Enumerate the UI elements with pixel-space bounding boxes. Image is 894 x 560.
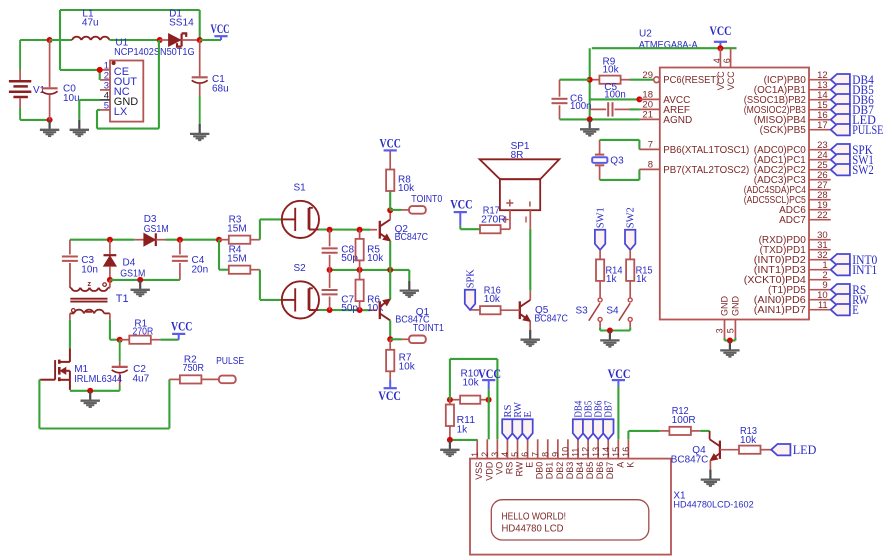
- junction: [357, 307, 363, 313]
- svg-text:SW2: SW2: [852, 163, 874, 177]
- svg-text:U2: U2: [639, 29, 652, 40]
- wire gate loop from R2: [39, 379, 169, 428]
- ground: [400, 281, 419, 297]
- wire R3/R4 split: [219, 240, 229, 270]
- ground: [600, 331, 619, 347]
- svg-text:100R: 100R: [672, 415, 696, 426]
- junction: [447, 397, 453, 403]
- capacitor C7 50p: [322, 270, 359, 314]
- svg-text:Q3: Q3: [610, 155, 624, 166]
- capacitor C6 100n: [552, 80, 592, 120]
- LCD X1 HD44780LCD-1602: [470, 459, 754, 555]
- wire VCC to R9/AVCC: [590, 48, 640, 119]
- svg-text:7: 7: [530, 452, 540, 457]
- flag DB4 (LCD): [573, 401, 585, 440]
- U2 pin 22 ADC7: [779, 210, 831, 226]
- svg-text:ATMEGA8A-A: ATMEGA8A-A: [639, 40, 698, 51]
- IC U1 NCP1402SN50T1G: [110, 37, 195, 121]
- resistor R16 10k: [480, 286, 520, 315]
- label PULSE (testpoint): [201, 356, 244, 383]
- capacitor C3: [62, 240, 98, 288]
- svg-text:SW2: SW2: [626, 207, 637, 228]
- junction: [387, 267, 393, 273]
- svg-text:68u: 68u: [212, 84, 229, 95]
- junction: [486, 397, 492, 403]
- flag E (LCD): [522, 411, 534, 439]
- flag LED (R13): [771, 443, 816, 457]
- svg-text:E: E: [523, 411, 534, 418]
- U2 pin 4 VCC: [712, 48, 726, 90]
- svg-text:VO: VO: [494, 462, 504, 475]
- svg-text:T1: T1: [116, 293, 129, 305]
- resistor R5 10k: [356, 230, 385, 270]
- resistor R17 270R: [480, 206, 506, 234]
- X1 pin 13 DB6: [591, 439, 605, 479]
- svg-text:V1: V1: [33, 85, 46, 96]
- svg-text:13: 13: [591, 447, 601, 457]
- svg-text:5: 5: [510, 452, 520, 457]
- wire K to R12: [628, 431, 660, 439]
- resistor R9 10k: [590, 57, 630, 84]
- svg-text:VCC: VCC: [211, 22, 230, 36]
- wire primary right to R1/C2 node: [110, 320, 120, 340]
- resistor R14 1k: [596, 250, 623, 298]
- capacitor C1: [192, 40, 229, 125]
- wire CE node: [60, 70, 100, 80]
- svg-text:21: 21: [642, 110, 653, 121]
- junction: [587, 116, 593, 122]
- capacitor C4: [172, 240, 208, 280]
- U2 pin 2 (XCKT0)PD4: [744, 270, 831, 286]
- svg-text:VCC: VCC: [171, 320, 192, 334]
- flag SPK (pin 23): [831, 143, 873, 157]
- svg-text:4: 4: [500, 452, 510, 457]
- svg-text:BC847C: BC847C: [671, 455, 709, 466]
- junction: [636, 96, 642, 102]
- wire VCC rail to U2: [592, 47, 737, 49]
- junction: [47, 117, 53, 123]
- flag SPK (to R16): [465, 268, 480, 309]
- flag SW2 (pin 25): [831, 163, 874, 177]
- U1 pin 4 GND: [100, 90, 138, 108]
- svg-text:SPK: SPK: [465, 268, 476, 288]
- svg-text:S2: S2: [294, 263, 307, 274]
- svg-text:100n: 100n: [570, 101, 592, 112]
- junction: [357, 227, 363, 233]
- resistor R10 10k: [450, 368, 489, 404]
- svg-text:10k: 10k: [484, 294, 501, 305]
- svg-text:VCC: VCC: [710, 24, 732, 38]
- flag DB6 (LCD): [593, 401, 605, 440]
- U2 pin 10 (AIN0)PD6: [754, 290, 831, 306]
- junction: [387, 336, 393, 342]
- wire battery bottom: [20, 119, 49, 121]
- svg-text:10n: 10n: [81, 264, 98, 275]
- flag E (pin 11): [831, 303, 859, 317]
- wire mid rail to ground: [408, 270, 410, 281]
- svg-text:VCC: VCC: [380, 136, 401, 150]
- flag DB7 (LCD): [603, 401, 615, 440]
- svg-text:4u7: 4u7: [133, 373, 150, 384]
- svg-text:AGND: AGND: [663, 115, 692, 126]
- wire sense top rail: [70, 239, 219, 241]
- svg-text:LED: LED: [793, 443, 817, 457]
- transistor Q1 BC847C: [380, 299, 430, 326]
- flag INT1 (pin 1): [831, 263, 878, 277]
- resistor R2 750R: [169, 355, 204, 384]
- svg-text:7: 7: [648, 140, 653, 151]
- U2 pin 7 PB6: [639, 140, 749, 156]
- svg-text:D4: D4: [123, 258, 136, 269]
- U2 pin 21 AGND: [640, 110, 692, 126]
- U2 pin 20 AREF: [640, 100, 690, 116]
- U2 pin 17 (SCK)PB5: [760, 120, 831, 136]
- diode D3 GS1M: [134, 214, 168, 246]
- label TOINT0: [390, 194, 442, 214]
- svg-text:BC847C: BC847C: [534, 314, 568, 325]
- X1 pin 15 A: [611, 439, 625, 467]
- svg-text:RS: RS: [504, 462, 514, 475]
- X1 pin 5 RW: [510, 439, 524, 476]
- capacitor C0: [42, 40, 80, 120]
- U2 pin 6 VCC: [722, 48, 736, 90]
- junction: [107, 237, 113, 243]
- junction: [216, 237, 222, 243]
- U2 pin 16 (MISO)PB4: [754, 110, 831, 126]
- svg-text:HELLO WORLD!: HELLO WORLD!: [502, 511, 567, 523]
- VCC supply (LCD backlight A): [608, 367, 631, 440]
- svg-text:DB2: DB2: [555, 462, 565, 480]
- wire mid rail: [330, 269, 410, 271]
- flag SW1 (pin 24): [831, 153, 874, 167]
- VCC supply (R8): [380, 136, 401, 169]
- svg-text:22: 22: [817, 210, 828, 221]
- switch S3: [576, 298, 603, 327]
- transistor Q5 BC847C: [520, 291, 568, 325]
- U2 pin 11 (AIN1)PD7: [754, 300, 831, 316]
- U2 pin 14 (SSOC1B)PB2: [744, 90, 831, 106]
- VCC supply (top-left): [200, 22, 230, 40]
- flag RS (pin 9): [831, 283, 867, 297]
- svg-text:11: 11: [571, 448, 581, 457]
- svg-text:z: z: [87, 279, 91, 288]
- svg-text:8: 8: [540, 452, 550, 457]
- wire switches to ground: [600, 327, 630, 330]
- U2 pin 32 (INT0)PD2: [754, 250, 831, 266]
- junction: [87, 388, 93, 394]
- X1 pin 6 E: [520, 439, 534, 467]
- U2 pin 26 (ADC3)PC3: [754, 170, 831, 186]
- battery V1: [9, 40, 46, 120]
- svg-text:VCC: VCC: [478, 367, 501, 381]
- svg-text:DB4: DB4: [575, 462, 585, 480]
- wire S1 rail (Q2 base): [319, 228, 377, 230]
- svg-text:GND: GND: [730, 296, 740, 317]
- wire Q2 emitter down: [389, 241, 391, 270]
- crystal Q3: [592, 140, 624, 180]
- svg-text:E: E: [525, 462, 535, 468]
- svg-text:1k: 1k: [636, 274, 648, 285]
- svg-text:SW1: SW1: [596, 207, 607, 228]
- svg-text:PULSE: PULSE: [216, 356, 244, 367]
- svg-text:ADC7: ADC7: [779, 215, 806, 226]
- U1 pin 1 CE: [100, 60, 129, 78]
- junction: [137, 277, 143, 283]
- flag LED (pin 16): [831, 113, 876, 127]
- svg-text:IRLML6344: IRLML6344: [74, 374, 122, 385]
- junction: [197, 37, 203, 43]
- U2 pin 31 (TXD)PD1: [760, 240, 831, 256]
- wire XTAL1 (pin7): [600, 140, 640, 150]
- junction: [327, 227, 333, 233]
- ground: [81, 391, 100, 407]
- U1 pin 2 OUT: [100, 70, 137, 88]
- svg-text:BC847C: BC847C: [395, 232, 429, 243]
- X1 pin 7 DB0: [530, 439, 544, 479]
- U2 pin 18 AVCC: [639, 90, 690, 106]
- diode D4 GS1M: [104, 240, 146, 280]
- svg-text:8R: 8R: [511, 150, 524, 161]
- wire Q1 collector node: [389, 321, 391, 340]
- svg-text:(SCK)PB5: (SCK)PB5: [760, 125, 807, 136]
- wire XTAL2 (pin8): [600, 169, 640, 180]
- svg-text:50p: 50p: [341, 303, 358, 314]
- junction: [607, 328, 613, 334]
- svg-text:15M: 15M: [227, 254, 247, 265]
- VCC supply (R1): [160, 320, 192, 340]
- ground: [580, 119, 599, 135]
- U2 pin 24 (ADC1)PC1: [754, 150, 831, 166]
- ground: [190, 124, 209, 140]
- svg-text:LX: LX: [114, 106, 128, 118]
- U2 pin 1 (INT1)PD3: [754, 260, 831, 276]
- svg-text:(AIN1)PD7: (AIN1)PD7: [754, 305, 806, 316]
- ground: [70, 120, 89, 136]
- junction: [117, 337, 123, 343]
- svg-text:20n: 20n: [192, 264, 209, 275]
- wire AGND rail: [590, 118, 640, 120]
- svg-text:10k: 10k: [399, 362, 416, 373]
- svg-text:TOINT1: TOINT1: [413, 323, 444, 334]
- X1 pin 16 K: [621, 439, 635, 467]
- svg-text:17: 17: [817, 120, 828, 131]
- junction: [447, 437, 453, 443]
- U2 pin 23 (ADC0)PC0: [754, 140, 831, 156]
- svg-text:1k: 1k: [606, 274, 618, 285]
- ground: [40, 120, 59, 136]
- resistor R6 10k: [356, 270, 385, 314]
- wire primary left to M1 drain: [69, 320, 71, 348]
- VCC supply (R17): [450, 197, 480, 229]
- X1 pin 4 RS: [500, 439, 514, 474]
- touch sensor S2: [282, 263, 319, 319]
- wire R4 to S2: [260, 270, 282, 300]
- flag PULSE (pin 17): [831, 123, 884, 137]
- svg-text:DB7: DB7: [604, 401, 615, 418]
- svg-text:3: 3: [490, 452, 500, 457]
- svg-text:270R: 270R: [133, 327, 154, 338]
- wire S2 rail (Q1 base): [319, 309, 377, 311]
- svg-text:DB0: DB0: [535, 462, 545, 480]
- resistor R11 1k: [446, 400, 476, 440]
- U2 pin 8 PB7: [639, 160, 749, 176]
- VCC supply (LCD VDD): [478, 367, 501, 440]
- U2 pin 28 (ADC5SCL)PC5: [744, 190, 831, 206]
- resistor R3 15M: [219, 214, 260, 244]
- svg-text:270R: 270R: [481, 215, 506, 226]
- X1 pin 3 VO: [490, 439, 504, 474]
- X1 pin 2 VDD: [480, 439, 494, 480]
- svg-text:5: 5: [726, 328, 736, 333]
- wire R12 to Q4: [691, 430, 710, 432]
- switch S4: [606, 298, 632, 327]
- transformer T1: [70, 263, 129, 320]
- U1 pin 3 NC: [100, 80, 130, 98]
- U2 pin 15 (MOSIOC2)PB3: [744, 100, 831, 116]
- svg-text:15M: 15M: [227, 224, 247, 235]
- junction: [157, 37, 163, 43]
- resistor R4 15M: [227, 244, 260, 274]
- U2 pin 30 (RXD)PD0: [759, 230, 831, 246]
- X1 pin 8 DB1: [540, 439, 554, 479]
- wire top feedback bus: [60, 10, 200, 70]
- svg-text:INT1: INT1: [852, 263, 877, 277]
- svg-text:47u: 47u: [82, 18, 99, 29]
- svg-text:PB7(XTAL2TOSC2): PB7(XTAL2TOSC2): [663, 165, 749, 176]
- svg-text:VCC: VCC: [726, 71, 736, 91]
- resistor R15 1k: [626, 250, 653, 298]
- ground (Q5 emitter): [521, 321, 540, 346]
- svg-text:9: 9: [550, 452, 560, 457]
- junction: [107, 277, 113, 283]
- svg-text:10k: 10k: [463, 378, 480, 389]
- transistor M1 IRLML6344 (n-mosfet): [40, 348, 122, 390]
- svg-text:E: E: [852, 303, 859, 317]
- flag DB4 (pin 12): [831, 73, 875, 87]
- U2 pin 19 ADC6: [779, 200, 831, 216]
- svg-text:1k: 1k: [457, 425, 469, 436]
- junction: [357, 267, 363, 273]
- svg-text:VDD: VDD: [484, 461, 494, 481]
- junction: [47, 37, 53, 43]
- capacitor C8 50p: [322, 230, 359, 270]
- svg-text:15: 15: [611, 447, 621, 457]
- wire speaker to Q5 collector: [529, 229, 531, 291]
- touch sensor S1: [282, 183, 319, 238]
- svg-text:VCC: VCC: [378, 389, 401, 403]
- svg-text:6: 6: [520, 452, 530, 457]
- junction: [177, 237, 183, 243]
- wire D4/C4 bottom rail: [110, 279, 180, 281]
- X1 pin 10 DB3: [561, 439, 575, 479]
- svg-text:DB6: DB6: [595, 462, 605, 480]
- svg-text:DB7: DB7: [605, 462, 615, 480]
- wire U1 GND to ground: [79, 100, 100, 120]
- svg-text:VSS: VSS: [474, 462, 484, 480]
- X1 pin 14 DB7: [601, 439, 615, 479]
- junction: [327, 307, 333, 313]
- flag SW2: [625, 207, 637, 250]
- svg-text:10u: 10u: [63, 93, 80, 104]
- transistor Q2 BC847C: [380, 210, 428, 243]
- flag RS (LCD): [502, 405, 514, 440]
- svg-text:10: 10: [561, 447, 571, 457]
- flag RW (LCD): [512, 402, 524, 440]
- svg-text:TOINT0: TOINT0: [411, 194, 442, 205]
- U2 pin 27 (ADC4SDA)PC4: [744, 180, 831, 196]
- svg-text:GS1M: GS1M: [144, 224, 169, 235]
- svg-text:10k: 10k: [367, 253, 384, 264]
- junction: [327, 267, 333, 273]
- ground: [440, 440, 459, 456]
- junction: [387, 207, 393, 213]
- svg-text:GND: GND: [719, 296, 729, 317]
- svg-text:11: 11: [818, 300, 828, 311]
- junction: [97, 67, 103, 73]
- svg-text:PULSE: PULSE: [852, 123, 883, 137]
- U1 pin 5 LX: [100, 100, 128, 118]
- resistor R7 10k: [386, 339, 416, 379]
- svg-text:K: K: [625, 462, 635, 468]
- svg-text:A: A: [615, 462, 625, 468]
- flag RW (pin 10): [831, 293, 869, 307]
- VCC supply (R7, inverted): [378, 379, 401, 403]
- svg-text:RW: RW: [515, 461, 525, 476]
- flag SW1: [595, 207, 607, 250]
- ground: [131, 280, 150, 296]
- X1 pin 1 VSS: [470, 439, 484, 479]
- transistor Q4 BC847C (mirrored): [671, 431, 739, 466]
- junction: [587, 77, 593, 83]
- wire battery top to C0: [20, 39, 49, 41]
- svg-text:S4: S4: [606, 305, 619, 316]
- svg-text:12: 12: [581, 447, 591, 457]
- capacitor C2 4u7: [112, 340, 150, 391]
- svg-text:29: 29: [642, 70, 653, 81]
- svg-text:DB1: DB1: [545, 462, 555, 480]
- svg-text:SS14: SS14: [169, 18, 194, 29]
- U2 pin 29 PC6(RESET): [630, 70, 720, 86]
- speaker SP1 8R: [480, 141, 560, 229]
- U2 pin 9 (T1)PD5: [768, 280, 831, 296]
- svg-text:VCC: VCC: [608, 367, 631, 381]
- wire R3 to S1: [260, 219, 282, 239]
- svg-text:10k: 10k: [740, 435, 757, 446]
- svg-text:750R: 750R: [183, 363, 204, 374]
- resistor R13 10k: [739, 426, 771, 454]
- flag DB7 (pin 15): [831, 103, 874, 117]
- svg-text:DB3: DB3: [565, 462, 575, 480]
- svg-text:HD44780LCD-1602: HD44780LCD-1602: [673, 499, 753, 510]
- junction: [717, 45, 723, 51]
- svg-text:10k: 10k: [398, 183, 415, 194]
- resistor R12 100R: [660, 406, 696, 435]
- svg-text:S3: S3: [576, 305, 589, 316]
- X1 pin 11 DB4: [571, 439, 585, 479]
- svg-text:PC6(RESET): PC6(RESET): [663, 75, 719, 86]
- svg-text:PB6(XTAL1TOSC1): PB6(XTAL1TOSC1): [663, 145, 749, 156]
- capacitor C5 100n: [590, 82, 640, 117]
- svg-text:1: 1: [470, 452, 480, 457]
- diode D1 SS14: [160, 9, 200, 47]
- svg-text:3: 3: [715, 328, 725, 333]
- junction: [727, 338, 733, 344]
- svg-text:S1: S1: [294, 183, 307, 194]
- X1 pin 9 DB2: [550, 439, 564, 479]
- VCC supply (U2): [710, 24, 732, 48]
- resistor R8 10k: [386, 170, 415, 194]
- svg-text:8: 8: [648, 160, 653, 171]
